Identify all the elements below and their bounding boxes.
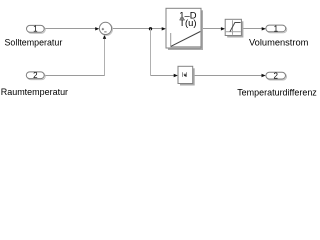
svg-text:1: 1 [274,24,279,33]
svg-text:1: 1 [33,25,38,34]
wire junction down to abs [151,29,178,77]
svg-text:T(u): T(u) [179,17,196,28]
lookup table block [166,8,203,50]
wire sum to lookup table [112,27,166,30]
svg-text:Raumtemperatur: Raumtemperatur [1,87,68,97]
wire lookup to saturation [201,27,225,30]
junction node [149,27,152,30]
abs block [178,66,195,85]
outport 2 [266,72,287,81]
svg-text:2: 2 [33,71,38,80]
saturation block [225,19,243,37]
svg-text:Solltemperatur: Solltemperatur [5,37,63,47]
wire abs to outport2 [193,74,266,77]
wire saturation to outport1 [242,27,266,30]
inport 2 [26,71,45,80]
svg-text:Volumenstrom: Volumenstrom [249,38,308,48]
svg-text:2: 2 [273,72,278,81]
wire inport2 to sum (up branch) [44,35,106,76]
inport 1 [27,25,46,34]
outport 1 [266,24,287,33]
svg-text:Temperaturdifferenz: Temperaturdifferenz [237,88,317,98]
wire inport1 to sum [44,27,99,30]
sum block U1 [99,22,112,35]
